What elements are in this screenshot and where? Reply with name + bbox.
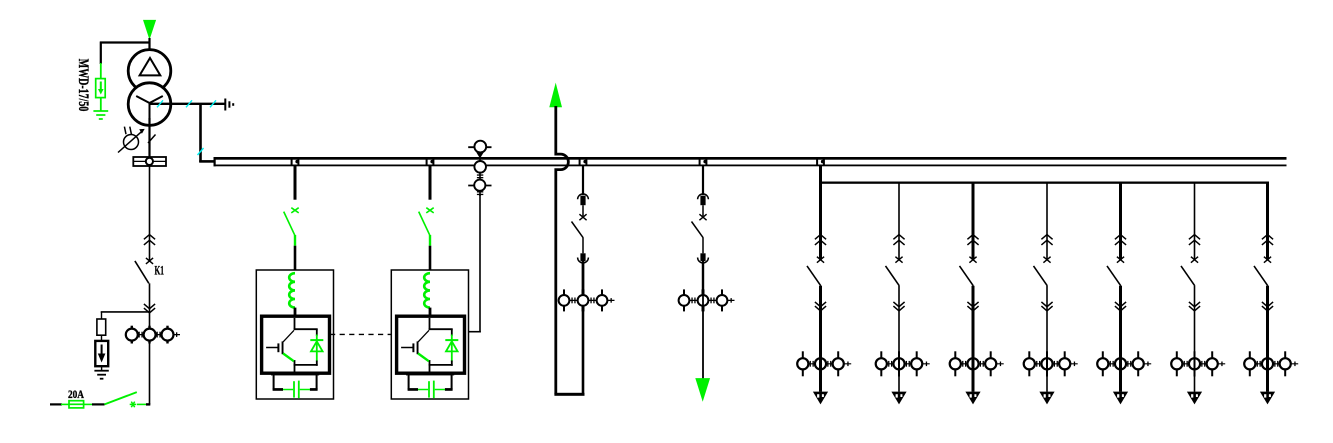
svg-text:20A: 20A	[68, 387, 84, 401]
wire: arrow to transformer	[148, 38, 150, 51]
main bus B1 bottom line	[214, 165, 1287, 167]
wire: QF2 to outgoing arrow	[702, 261, 704, 379]
neutral ground electrode	[225, 99, 233, 111]
bus tap for distribution sub-bus	[816, 157, 825, 166]
station service line with 20A fuse	[50, 392, 150, 408]
green disconnect for SVG branch 1	[284, 166, 299, 271]
PT / metering stack on bus	[468, 141, 491, 196]
sub bus B2	[819, 182, 1269, 184]
feeder F3	[950, 183, 1004, 404]
wye symbol	[136, 96, 163, 118]
bus tap for feeder breaker QF2	[699, 157, 708, 166]
transformer T1 LV winding (wye)	[128, 83, 171, 126]
bus tap for SVG branch 2	[426, 157, 435, 166]
wire: transformer LV to bus	[199, 104, 214, 162]
drawout marks below K1	[144, 304, 155, 313]
wire: transformer to metering box	[148, 118, 150, 158]
outgoing arrow (green, down)	[695, 378, 710, 402]
tie breaker QF1 (drawout) with CTs	[559, 166, 615, 311]
inverter module 1	[256, 270, 333, 399]
surge arrester F2	[95, 341, 108, 371]
ground (green) below arrester	[93, 111, 108, 119]
branch wire to PT fuse	[101, 311, 150, 313]
delta symbol	[140, 58, 161, 75]
riser: main bus to sub-bus	[819, 166, 822, 184]
fixed contact X of K1	[146, 258, 153, 264]
disconnect switch K1 blade	[135, 261, 149, 283]
metering box with CT	[133, 157, 166, 166]
surge arrester F1 MWD-17/50 (green)	[96, 63, 106, 111]
wire: HV tap to arrester	[100, 42, 150, 65]
bus tap for SVG branch 1	[291, 157, 300, 166]
cyan conductor marks on neutral	[157, 100, 216, 155]
wire: neutral from wye to ground	[149, 103, 225, 105]
fuse FU1	[97, 312, 106, 342]
outgoing tie arrow (green, up)	[549, 83, 562, 108]
wire: box to K1	[149, 166, 151, 260]
meter M1 (circle with arrow)	[118, 127, 156, 153]
meter arrow head	[139, 129, 145, 134]
svg-text:MWD-17/50: MWD-17/50	[75, 59, 91, 111]
dashed link between modules	[330, 333, 392, 335]
transformer T1 HV winding (delta)	[128, 50, 171, 93]
main bus left end cap	[214, 157, 216, 166]
bus tap for tie breaker QF1	[579, 157, 588, 166]
wire below K1	[149, 283, 151, 404]
svg-text:K1: K1	[155, 264, 165, 278]
ground below arrester F2	[94, 371, 108, 379]
main bus B1 top line	[214, 157, 1287, 160]
feeder F6	[1171, 183, 1225, 404]
wire: breaker QF1 lower stem	[582, 261, 585, 395]
tie line with bus hop	[556, 106, 569, 394]
CT group on K1 branch	[126, 326, 180, 344]
inverter module 2	[391, 270, 468, 399]
feeder F2	[876, 183, 930, 404]
feeder F5	[1097, 183, 1151, 404]
feeder breaker QF2 (drawout) with CTs	[679, 166, 735, 311]
feeder F7	[1244, 183, 1298, 404]
wire: module 2 to PT column	[468, 194, 481, 333]
star contact of service switch	[130, 402, 137, 408]
feeder F1	[797, 183, 851, 404]
incoming feed arrow (green, down)	[143, 20, 156, 40]
tie U-bottom	[554, 393, 584, 396]
drawout marks above K1	[144, 235, 155, 245]
feeder F4	[1024, 183, 1078, 404]
green disconnect for SVG branch 2	[419, 166, 434, 271]
